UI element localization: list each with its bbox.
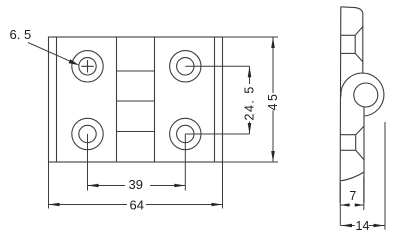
arrow 64 right [212,203,223,207]
plate outline (front view leaf pair) [49,37,223,162]
knuckle divider 1 [117,70,155,72]
countersink upper hole wall [354,35,356,53]
left bend line [56,37,58,162]
extension 39 right [184,134,186,191]
arrow 45 down [271,151,275,162]
arrow 24.5 up [248,66,252,77]
hole bottom-left outer [72,118,103,149]
extension 64 left [48,162,50,209]
svg-text:6. 5: 6. 5 [10,27,32,42]
extension 7 right [363,177,365,210]
center cross mark on top-left hole [81,60,93,72]
extension bottom for 45 [223,161,279,163]
svg-text:24. 5: 24. 5 [243,85,257,120]
hole bottom-left inner [79,125,96,142]
side view lower leaf right edge [363,107,365,203]
arrow 64 left [49,203,60,207]
hole bottom-right inner [177,125,194,142]
side view upper leaf right edge [362,13,364,73]
arrow 14 left [341,224,352,228]
hole top-left outer [72,51,103,82]
countersink upper cone top [355,27,363,36]
right bend line [214,37,216,162]
pin hole circle [354,83,378,107]
countersink upper bottom line [341,52,355,54]
countersink upper cone bottom [355,53,363,61]
dim line 14 [341,225,385,227]
arrow 45 up [271,37,275,48]
arrow 7 right [355,203,364,206]
knuckle divider 2 [117,100,155,102]
svg-text:39: 39 [129,177,143,192]
hole top-right outer [170,51,201,82]
countersink lower cone top [356,126,364,134]
leader line 24.5 bottom [185,133,249,135]
hole bottom-right outer [170,118,201,149]
svg-text:64: 64 [130,198,144,213]
leader line for 6.5 [28,43,76,64]
knuckle divider 3 [117,131,155,133]
arrow 7 left [340,203,349,206]
countersink lower bottom line [340,149,355,151]
arrow 14 right [374,224,385,228]
arrow 39 left [88,184,99,188]
arrow 6.5 leader [69,59,80,65]
knuckle column left edge [116,37,118,162]
dim line 7 [340,204,363,206]
side view upper leaf top edge with rounded corner [341,7,363,13]
side view left edge (both leaves) [339,7,342,203]
svg-text:14: 14 [356,219,370,233]
extension 64 right [222,162,224,209]
countersink lower cone bottom [356,150,364,159]
knuckle outer arc [341,73,384,116]
leader line 24.5 top [185,65,249,67]
svg-text:7: 7 [349,189,356,203]
arrow 39 right [174,184,185,188]
dim line 39 [88,185,186,187]
arrow 24.5 down [248,123,252,134]
countersink upper top line [341,34,355,36]
extension 7 and 14 left [339,183,341,226]
hole top-left inner [79,58,96,75]
extension 14 right [384,122,386,230]
countersink lower hole wall [355,135,357,151]
dim line 24.5 [249,66,251,134]
dim line 45 [272,37,274,162]
leaf offset curve [340,172,364,181]
countersink lower top line [340,134,355,136]
svg-text:45: 45 [266,92,280,111]
extension 39 left [87,134,89,191]
knuckle column right edge [154,37,156,162]
hole top-right inner [177,58,194,75]
dim line 64 [49,204,223,206]
extension top for 45 [223,36,279,38]
